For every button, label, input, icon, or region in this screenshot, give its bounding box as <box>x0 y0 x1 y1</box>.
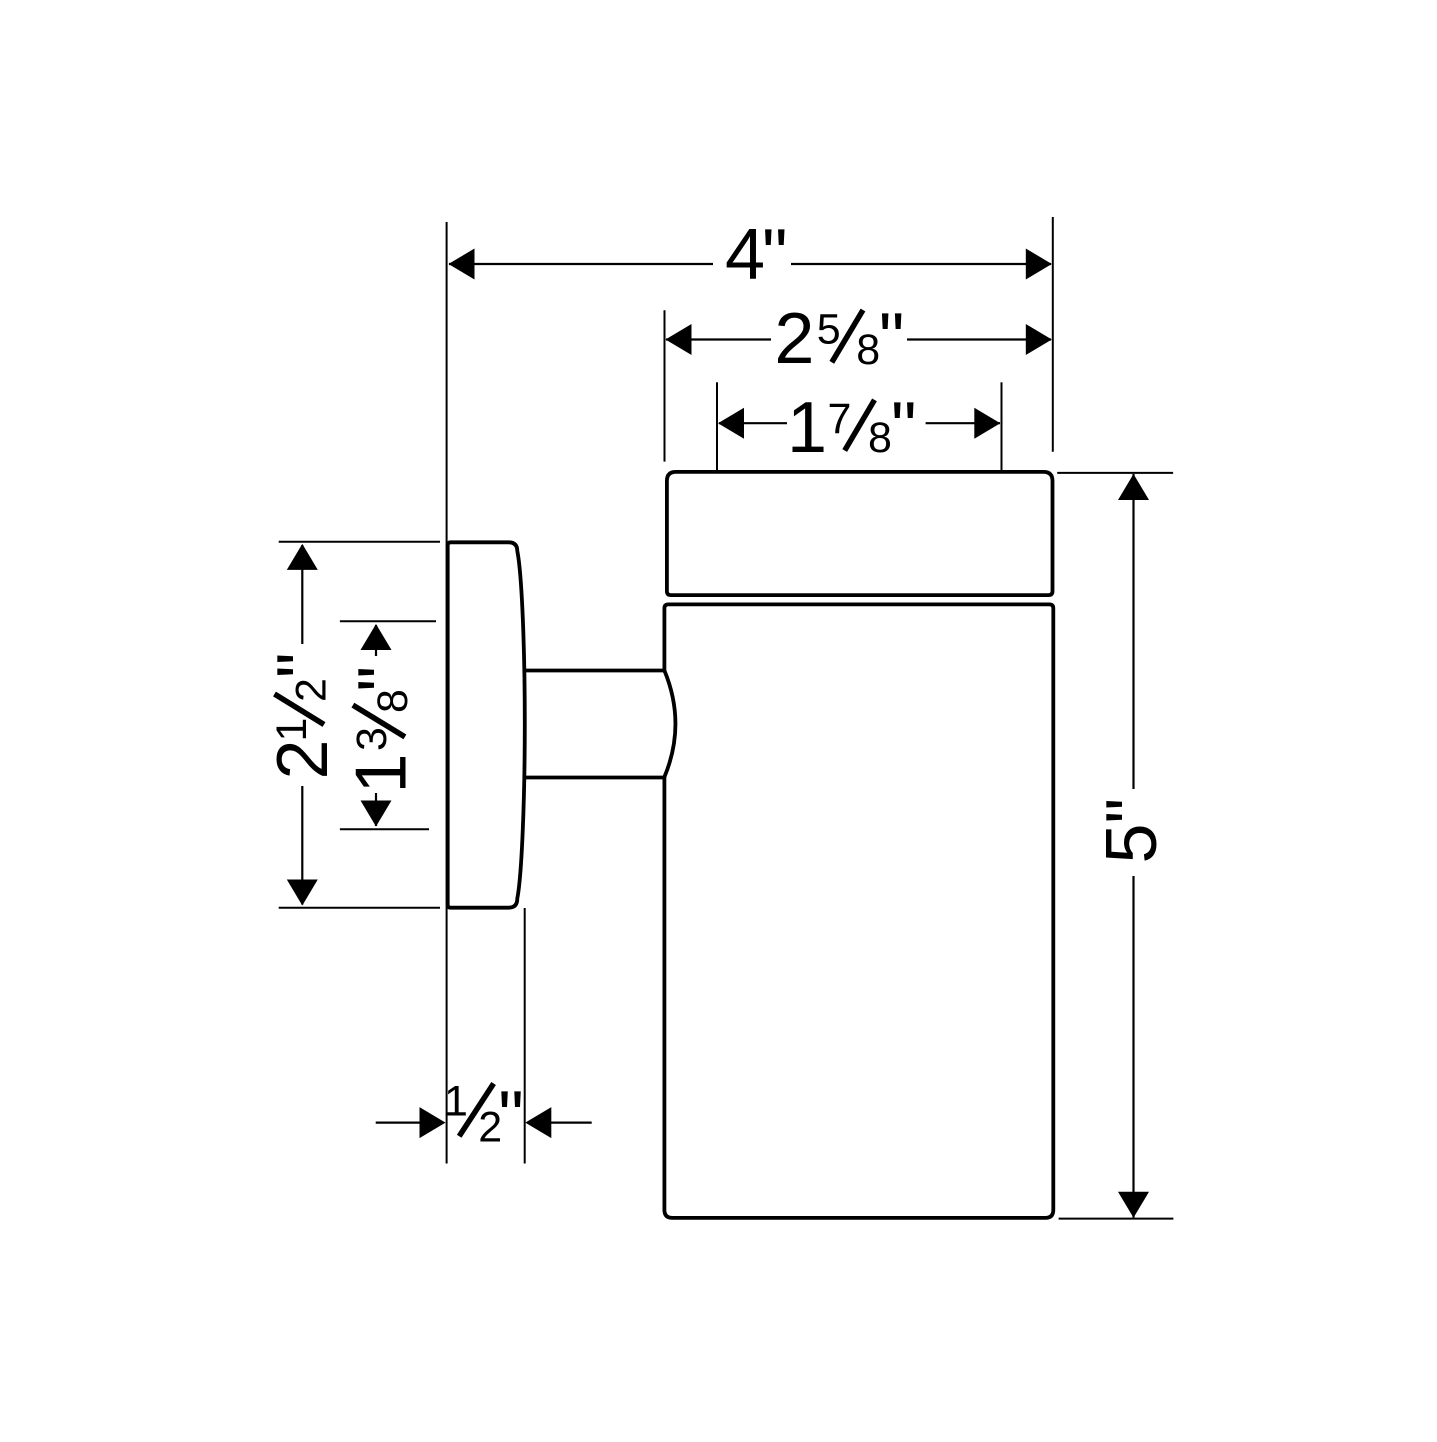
arrowhead 1-3/8in bottom <box>361 801 392 827</box>
dimension line 1/2in (outside arrows) <box>376 1121 421 1123</box>
svg-text:2: 2 <box>263 739 343 779</box>
right extension line for 4in and 2-5/8in <box>1052 217 1054 452</box>
svg-text:8: 8 <box>369 689 417 713</box>
top extension line for 2-1/2in (plate top) <box>279 541 440 543</box>
svg-text:5: 5 <box>817 306 841 354</box>
bracket arm top line <box>524 669 665 673</box>
arrowhead 1-7/8in right <box>974 408 1000 439</box>
arrowhead 1/2in right (points left) <box>525 1107 551 1138</box>
svg-text:8: 8 <box>856 326 880 374</box>
bottom extension line for 5in <box>1059 1218 1174 1220</box>
svg-text:": " <box>891 388 917 468</box>
dimension line 5in (vertical) <box>1132 474 1134 789</box>
dimension line 1-7/8in <box>719 422 787 424</box>
dimension line 1-3/8in (vertical) <box>375 625 377 656</box>
svg-text:": " <box>762 215 788 295</box>
tumbler body <box>664 604 1053 1218</box>
arrowhead 1-3/8in top <box>361 624 392 650</box>
left extension line for 2-5/8in <box>664 310 666 461</box>
svg-text:2: 2 <box>288 678 336 702</box>
svg-text:4: 4 <box>725 215 765 295</box>
bracket arm bottom line <box>525 776 665 780</box>
svg-text:": " <box>879 299 905 379</box>
arrowhead 5in top <box>1118 474 1149 500</box>
arrowhead 1/2in left (points right) <box>420 1107 446 1138</box>
svg-text:1: 1 <box>787 388 827 468</box>
svg-text:": " <box>498 1077 524 1157</box>
front-face extension line for 1/2in <box>524 908 526 1164</box>
arrowhead 1-7/8in left <box>718 408 744 439</box>
arrowhead 2-5/8in right <box>1026 324 1052 355</box>
svg-text:2: 2 <box>774 299 814 379</box>
arrowhead 2-5/8in left <box>666 324 692 355</box>
svg-text:": " <box>344 666 424 692</box>
dimension line 4in <box>449 263 713 265</box>
svg-text:1: 1 <box>342 753 422 793</box>
svg-text:1: 1 <box>268 718 316 742</box>
svg-text:1: 1 <box>444 1078 468 1126</box>
svg-text:7: 7 <box>828 395 852 443</box>
arrowhead 4in left <box>449 249 475 280</box>
wall extension line <box>446 222 448 1164</box>
svg-text:3: 3 <box>348 727 396 751</box>
arrowhead 4in right <box>1026 249 1052 280</box>
arrowhead 5in bottom <box>1118 1192 1149 1218</box>
bottom extension line for 1-3/8in <box>340 828 429 830</box>
svg-text:": " <box>263 652 343 678</box>
dimension line 2-1/2in (vertical) <box>301 545 303 644</box>
bottom extension line for 2-1/2in (plate bottom) <box>279 907 440 909</box>
dimension line 2-5/8in <box>666 338 771 340</box>
svg-text:8: 8 <box>868 414 892 462</box>
arrowhead 2-1/2in top <box>287 544 318 570</box>
arm-to-body joint bulge <box>664 671 675 778</box>
right extension line for 1-7/8in <box>1001 382 1003 470</box>
wall plate (escutcheon, side view) <box>448 542 525 907</box>
tumbler holder ring (top band) <box>667 472 1053 595</box>
arrowhead 2-1/2in bottom <box>287 880 318 906</box>
top extension line for 1-3/8in <box>340 620 436 622</box>
svg-text:5": 5" <box>1092 798 1172 864</box>
top extension line for 5in <box>1057 472 1173 474</box>
left extension line for 1-7/8in <box>716 382 718 470</box>
